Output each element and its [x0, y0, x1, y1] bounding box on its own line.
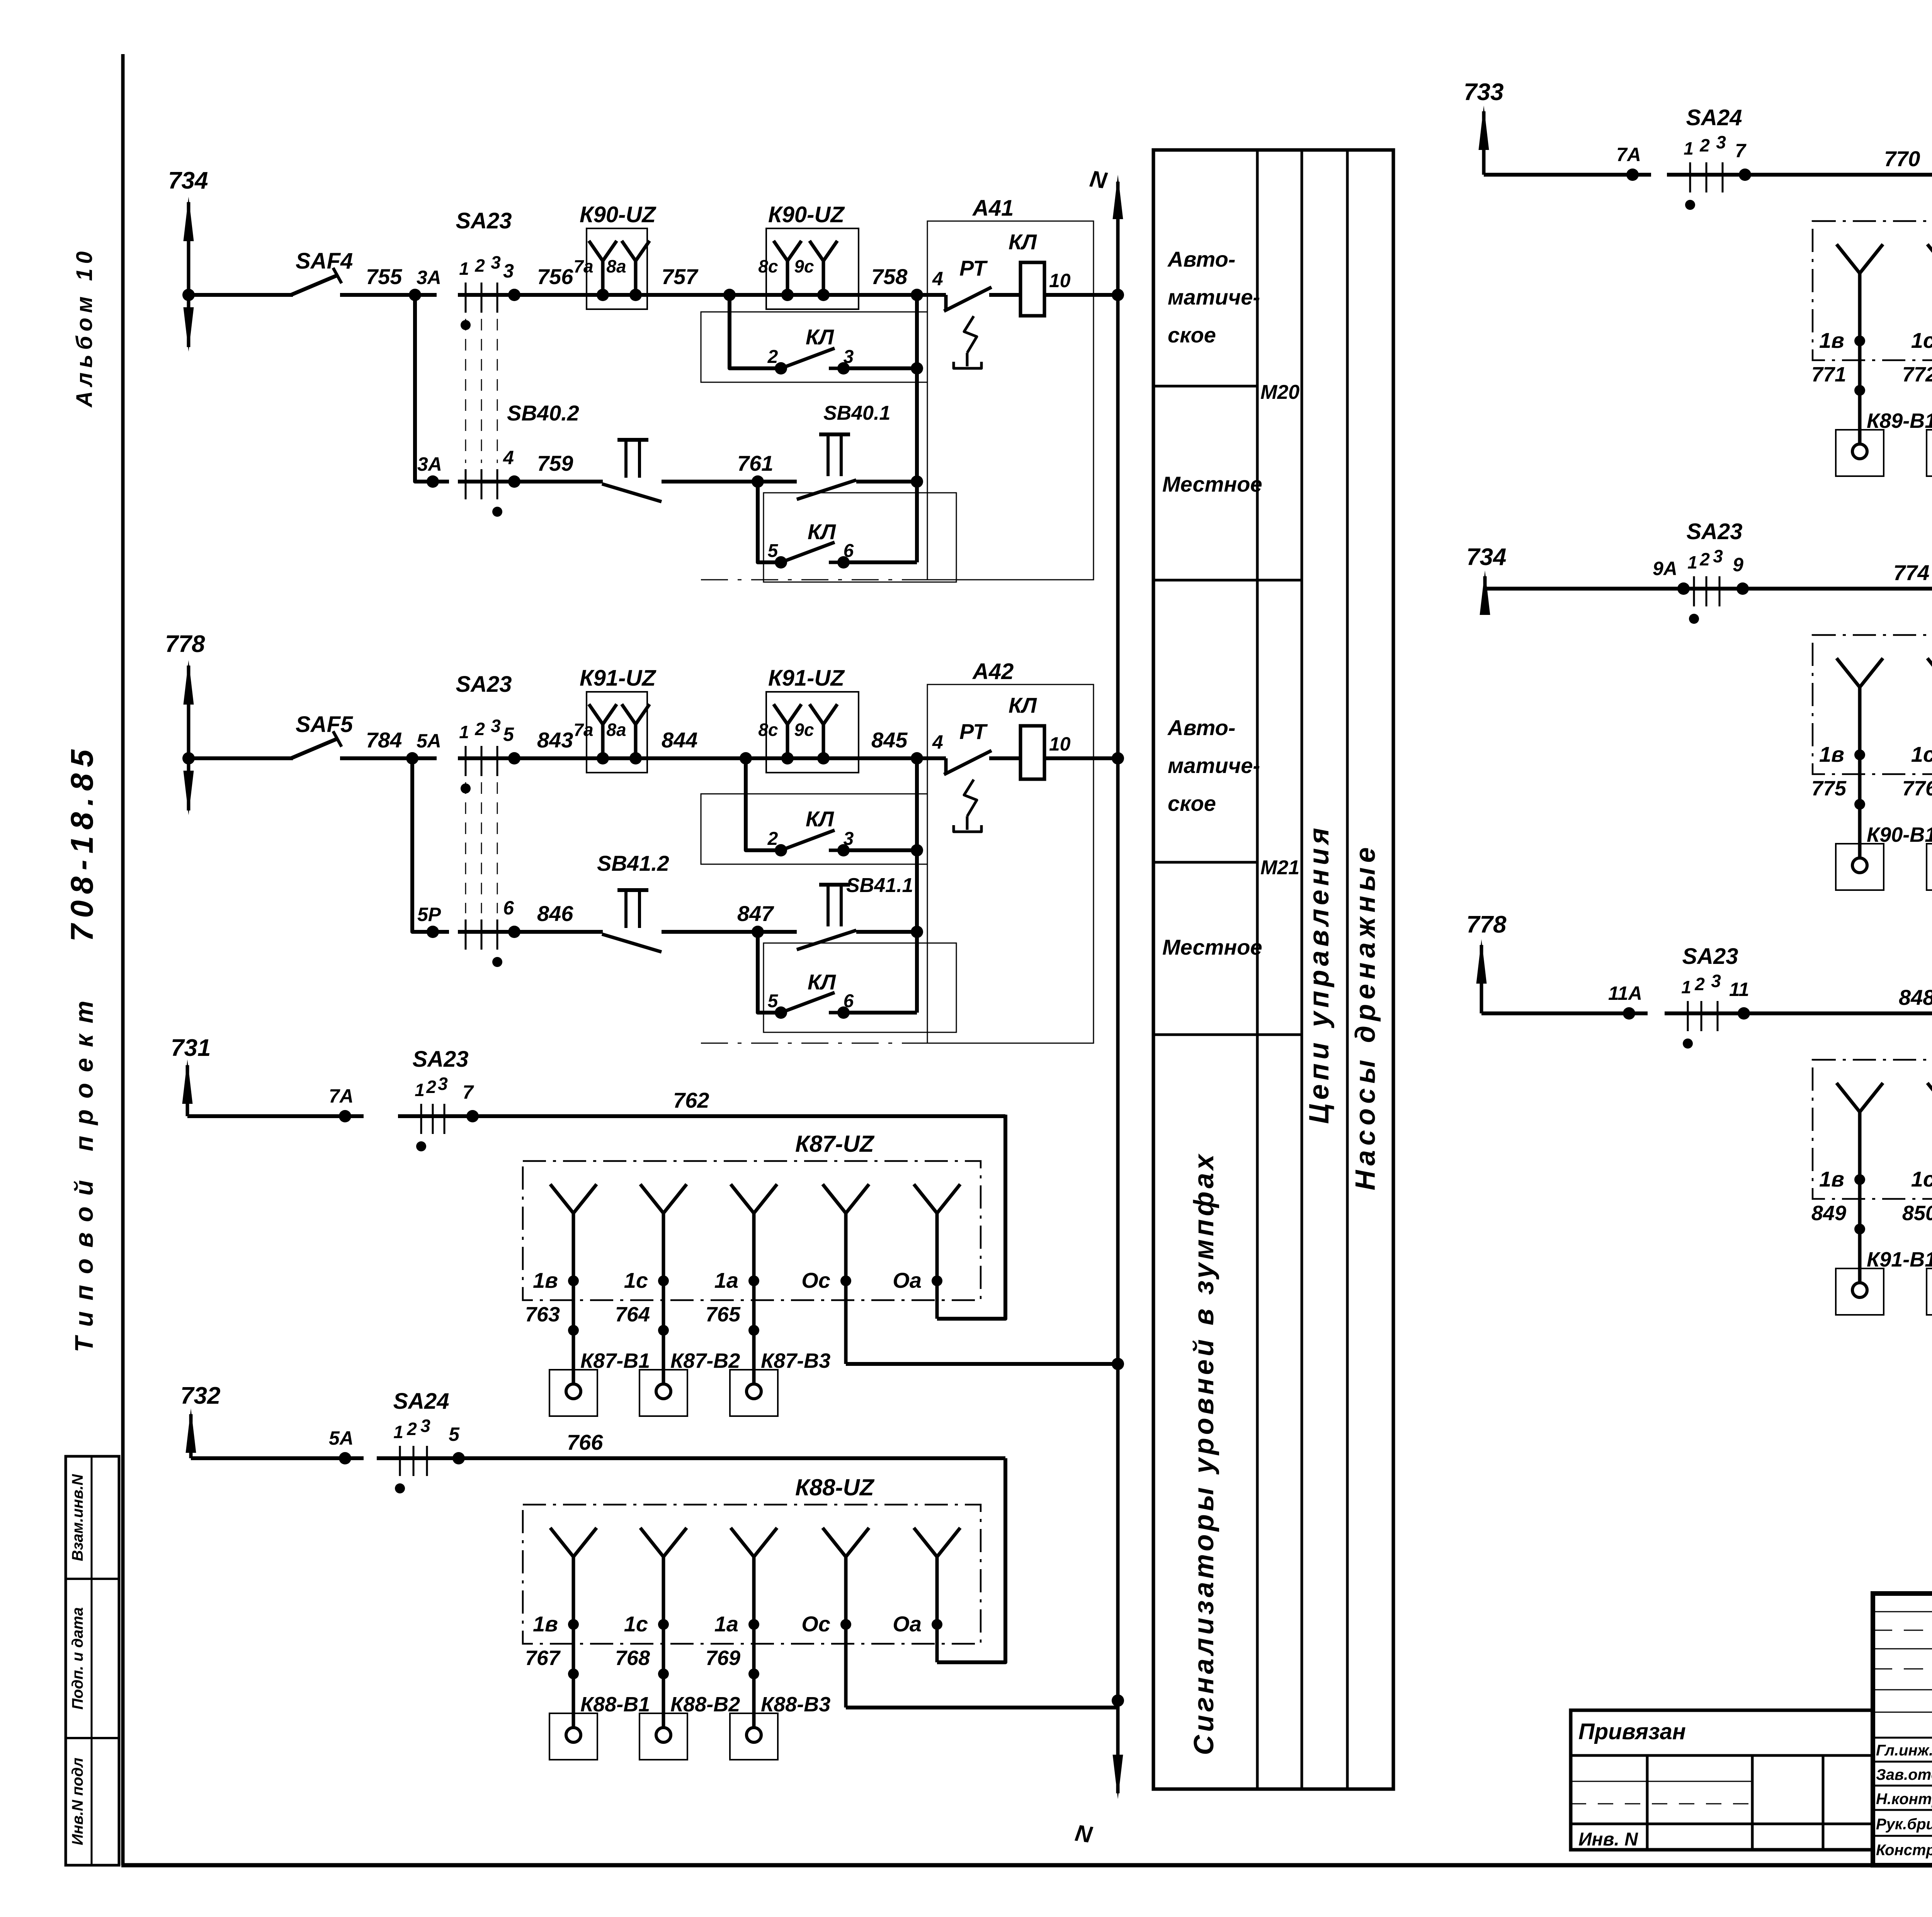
wire : feed of К88 block down to Oa sensor — [937, 1458, 1005, 1662]
svg-text:А41: А41 — [972, 196, 1014, 221]
svg-text:матиче-: матиче- — [1168, 753, 1260, 778]
svg-text:5А: 5А — [329, 1427, 354, 1449]
svg-text:775: 775 — [1811, 777, 1847, 800]
svg-text:848: 848 — [1899, 985, 1932, 1010]
breaker SAF4 — [189, 249, 437, 295]
svg-text:734: 734 — [168, 167, 208, 194]
wire : feeder 733 horizontal run — [1484, 173, 1651, 177]
relay contact КЛ 5-6 — [758, 932, 956, 1032]
svg-text:КЛ: КЛ — [806, 325, 834, 349]
svg-text:Авто-: Авто- — [1167, 715, 1235, 740]
svg-text:9с: 9с — [794, 256, 814, 276]
svg-text:3: 3 — [844, 829, 854, 849]
pushbutton SB40.2 — [458, 401, 726, 502]
node : wire number 765 — [706, 1303, 759, 1336]
switch SA23 (selector contact) — [1681, 944, 1750, 1049]
svg-text:КЛ: КЛ — [1009, 230, 1037, 254]
svg-text:2: 2 — [426, 1077, 436, 1097]
svg-text:758: 758 — [871, 264, 908, 289]
svg-text:8а: 8а — [606, 720, 626, 740]
svg-text:11: 11 — [1729, 979, 1749, 1000]
wire : К87 Oc sensor return to N bus — [846, 1362, 1118, 1366]
wire : branch to local-control row — [415, 295, 449, 482]
svg-text:733: 733 — [1464, 79, 1503, 106]
svg-text:1в: 1в — [1819, 328, 1844, 352]
junction : drop to SB/KL rows — [911, 289, 923, 301]
svg-text:1: 1 — [415, 1080, 425, 1100]
svg-text:755: 755 — [366, 264, 402, 289]
svg-text:ское: ское — [1168, 323, 1216, 347]
device box А41 — [701, 196, 1094, 580]
junction : middle bus / K88 Oc sensor return — [1112, 1694, 1124, 1707]
svg-text:3: 3 — [1711, 971, 1721, 991]
svg-text:1: 1 — [1687, 552, 1697, 572]
wire 848 — [1665, 985, 1932, 1013]
svg-text:SB41.1: SB41.1 — [846, 874, 913, 897]
wire 770 — [1667, 146, 1932, 175]
svg-text:9: 9 — [1733, 554, 1743, 575]
svg-text:1: 1 — [1684, 138, 1694, 158]
svg-text:3: 3 — [420, 1416, 430, 1436]
wire 762 — [398, 1088, 1005, 1116]
svg-text:10: 10 — [1049, 733, 1071, 755]
svg-text:765: 765 — [706, 1303, 741, 1326]
svg-text:SB40.1: SB40.1 — [823, 402, 890, 424]
node : wire number 776 — [1902, 777, 1932, 810]
svg-text:Рук.бриг.: Рук.бриг. — [1876, 1816, 1932, 1833]
wire 843 — [458, 728, 946, 758]
wire : feeder 778 riser — [1476, 939, 1487, 1013]
svg-text:Оа: Оа — [893, 1612, 922, 1636]
svg-text:778: 778 — [1466, 911, 1507, 938]
relay coil КЛ — [1009, 693, 1118, 779]
svg-text:К87-UZ: К87-UZ — [795, 1131, 875, 1157]
junction : 7А tap — [1616, 144, 1641, 181]
junction : 5А branch — [406, 730, 441, 764]
svg-text:6: 6 — [844, 541, 854, 561]
svg-text:К90-UZ: К90-UZ — [768, 202, 845, 227]
pushbutton SB41.1 — [797, 874, 917, 950]
pushbutton SB41.2 — [458, 851, 726, 952]
node : 3А label (lower row) — [417, 453, 442, 488]
wire : feeder 732 riser — [186, 1408, 196, 1458]
svg-text:774: 774 — [1893, 560, 1929, 585]
svg-text:764: 764 — [615, 1303, 650, 1326]
svg-text:1: 1 — [393, 1422, 403, 1442]
wire : right tie of bypass contacts — [915, 295, 919, 562]
wire : feed of К87 block down to Oa sensor — [937, 1115, 1005, 1319]
node : mode label "Автоматическое" (circuit 1) — [1167, 247, 1260, 347]
svg-text:7А: 7А — [1616, 144, 1641, 165]
svg-text:Н.контр.: Н.контр. — [1876, 1791, 1932, 1808]
svg-text:А42: А42 — [972, 659, 1014, 684]
sensor electrode К88-В1 — [549, 1693, 650, 1760]
wire : feeder 732 horizontal run — [191, 1456, 364, 1460]
svg-text:732: 732 — [180, 1382, 220, 1409]
svg-text:9с: 9с — [794, 720, 814, 740]
relay contact box К90-UZ (c-contacts) — [758, 202, 859, 309]
svg-text:1с: 1с — [1911, 1167, 1932, 1191]
svg-text:756: 756 — [537, 264, 573, 289]
junction : lower row / KL 5-6 branch — [726, 475, 797, 488]
relay unit box К88-UZ — [523, 1474, 981, 1644]
svg-text:7: 7 — [1735, 140, 1747, 162]
wire : feeder 778 horizontal run — [1481, 1011, 1648, 1015]
sensor electrode К87-В3 — [730, 1349, 830, 1416]
switch SA23 (lower row contact) — [466, 447, 520, 517]
svg-text:843: 843 — [537, 728, 573, 752]
wire 766 — [377, 1430, 1005, 1458]
svg-text:Инв. N: Инв. N — [1578, 1829, 1638, 1850]
sensor electrode contact К87 1в — [533, 1184, 597, 1385]
wire : middle N bus — [1113, 175, 1123, 1799]
svg-text:SAF4: SAF4 — [296, 249, 353, 274]
thermal relay contact РТ — [932, 719, 1020, 832]
svg-text:SAF5: SAF5 — [296, 712, 353, 737]
svg-text:731: 731 — [171, 1035, 211, 1061]
breaker SAF5 — [189, 712, 437, 758]
sensor electrode contact К88 1с — [624, 1528, 687, 1728]
sensor electrode contact К89 1в — [1819, 244, 1883, 445]
sensor electrode К91-В2 — [1927, 1248, 1932, 1315]
svg-text:2: 2 — [1699, 135, 1710, 155]
svg-text:10: 10 — [1049, 270, 1071, 291]
node : wire number 775 — [1811, 777, 1865, 810]
junction : middle bus / circuit A42 output — [1112, 752, 1124, 764]
svg-text:2: 2 — [474, 255, 485, 276]
svg-text:850: 850 — [1902, 1202, 1932, 1225]
node : wire number 772 — [1902, 363, 1932, 396]
svg-text:Альбом 10: Альбом 10 — [72, 247, 97, 408]
svg-text:Взам.инв.N: Взам.инв.N — [69, 1474, 86, 1561]
sensor electrode contact К87 Оа — [893, 1184, 960, 1319]
svg-text:8а: 8а — [606, 256, 626, 276]
sensor electrode contact К87 1а — [714, 1184, 777, 1385]
sensor electrode К87-В1 — [549, 1349, 650, 1416]
wire : feeder 734 horizontal run — [1485, 587, 1702, 591]
svg-text:1с: 1с — [1911, 328, 1932, 352]
node : middle legend table — [1153, 150, 1393, 1789]
relay contact box К91-UZ (a-contacts) — [573, 666, 656, 773]
svg-text:767: 767 — [525, 1646, 561, 1670]
svg-text:6: 6 — [503, 897, 514, 919]
switch SA23 (upper row contact) — [456, 672, 520, 913]
svg-text:5: 5 — [768, 541, 779, 561]
svg-text:1с: 1с — [1911, 742, 1932, 766]
svg-text:7а: 7а — [573, 256, 593, 276]
junction : lower row / KL 5-6 branch — [726, 926, 797, 938]
relay coil КЛ — [1009, 230, 1118, 316]
junction : 5А tap — [329, 1427, 354, 1464]
wire : sheet frame bottom border — [121, 1863, 1932, 1868]
svg-text:1в: 1в — [1819, 742, 1844, 766]
sensor electrode К88-В2 — [639, 1693, 740, 1760]
svg-text:Гл.инж.пр.: Гл.инж.пр. — [1876, 1742, 1932, 1759]
junction : middle bus / K87 Oc sensor return — [1112, 1358, 1124, 1370]
junction : drop to KL 2-3 row — [740, 752, 752, 764]
svg-text:7а: 7а — [573, 720, 593, 740]
node : wire number 769 — [706, 1646, 759, 1679]
svg-text:2: 2 — [767, 347, 778, 367]
svg-text:КЛ: КЛ — [1009, 693, 1037, 717]
sensor electrode К90-В2 — [1927, 823, 1932, 890]
relay contact box К90-UZ (a-contacts) — [573, 202, 656, 309]
switch SA24 (selector contact) — [1684, 105, 1751, 210]
svg-text:2: 2 — [474, 719, 485, 739]
svg-text:3: 3 — [491, 716, 501, 736]
svg-text:8с: 8с — [758, 720, 778, 740]
svg-text:2: 2 — [1694, 974, 1705, 994]
svg-text:SA23: SA23 — [1686, 519, 1742, 544]
svg-text:759: 759 — [537, 451, 573, 475]
svg-text:Привязан: Привязан — [1578, 1719, 1686, 1744]
junction : 11А tap — [1608, 982, 1642, 1020]
sensor electrode contact К88 1а — [714, 1528, 777, 1728]
wire : feeder 778 riser (double arrow) — [182, 660, 195, 815]
svg-text:КЛ: КЛ — [806, 807, 834, 831]
sensor electrode contact К91 1в — [1819, 1083, 1883, 1284]
node : wire number 767 — [525, 1646, 579, 1679]
svg-text:757: 757 — [662, 264, 699, 289]
svg-text:770: 770 — [1884, 146, 1920, 171]
svg-text:Инв.N подл: Инв.N подл — [69, 1758, 86, 1845]
svg-text:SA24: SA24 — [393, 1389, 449, 1414]
switch SA23 (upper row contact) — [456, 208, 520, 463]
svg-text:8с: 8с — [758, 256, 778, 276]
svg-text:Констр.!кол: Констр.!кол — [1876, 1842, 1932, 1859]
relay contact КЛ 5-6 — [758, 482, 956, 582]
relay unit box К89-UZ — [1813, 191, 1932, 360]
switch SA23 (selector contact) — [412, 1047, 479, 1151]
relay unit box К87-UZ — [523, 1131, 981, 1300]
svg-text:11А: 11А — [1608, 982, 1642, 1004]
svg-text:SB40.2: SB40.2 — [507, 401, 579, 425]
node : wire number 850 — [1902, 1202, 1932, 1234]
wire : feeder 731 horizontal run — [187, 1114, 364, 1118]
svg-text:761: 761 — [737, 451, 773, 475]
sensor electrode contact К90 1в — [1819, 658, 1883, 859]
sensor electrode contact К87 1с — [624, 1184, 687, 1385]
relay contact box К91-UZ (c-contacts) — [758, 666, 859, 773]
svg-text:Сигнализаторы уровней в зумп: Сигнализаторы уровней в зумпфах — [1189, 1151, 1219, 1755]
svg-text:1а: 1а — [714, 1612, 738, 1636]
node : wire number 763 — [525, 1303, 579, 1336]
svg-text:5А: 5А — [417, 730, 441, 752]
svg-text:3А: 3А — [417, 453, 442, 475]
wire : feeder 731 riser — [182, 1059, 193, 1116]
svg-text:769: 769 — [706, 1646, 740, 1670]
svg-text:784: 784 — [366, 728, 402, 752]
svg-text:1а: 1а — [714, 1268, 738, 1292]
switch SA24 (selector contact) — [393, 1389, 465, 1493]
svg-text:1с: 1с — [624, 1268, 648, 1292]
svg-text:Типовой проект: Типовой проект — [70, 990, 98, 1352]
wire : К88 Oc sensor return to N bus — [846, 1706, 1118, 1709]
junction : 7А tap — [329, 1085, 354, 1122]
svg-text:768: 768 — [615, 1646, 650, 1670]
svg-text:Ос: Ос — [801, 1268, 830, 1292]
thermal relay contact РТ — [932, 256, 1020, 368]
svg-text:КЛ: КЛ — [808, 519, 836, 544]
svg-text:Насосы дренажные: Насосы дренажные — [1350, 843, 1381, 1190]
svg-text:763: 763 — [525, 1303, 560, 1326]
svg-text:Оа: Оа — [893, 1268, 922, 1292]
junction : drop to KL 2-3 row — [723, 289, 736, 301]
node : wire number 764 — [615, 1303, 669, 1336]
svg-text:матиче-: матиче- — [1168, 285, 1260, 309]
switch SA23 (selector contact) — [1686, 519, 1749, 624]
sensor electrode contact К88 Оа — [893, 1528, 960, 1662]
svg-text:3: 3 — [1713, 546, 1723, 566]
relay unit box К90-UZ — [1813, 605, 1932, 774]
sensor electrode К91-В1 — [1836, 1248, 1932, 1315]
svg-text:3: 3 — [503, 260, 514, 282]
svg-text:ское: ское — [1168, 791, 1216, 815]
svg-text:9А: 9А — [1653, 558, 1677, 579]
node : mode label "Автоматическое" (circuit 2) — [1167, 715, 1260, 815]
svg-text:762: 762 — [673, 1088, 709, 1112]
svg-text:К90-UZ: К90-UZ — [580, 202, 656, 227]
svg-text:Зав.отд.: Зав.отд. — [1876, 1766, 1932, 1783]
node : left stamp table — [66, 1456, 119, 1865]
svg-text:778: 778 — [165, 631, 205, 657]
svg-text:5: 5 — [768, 991, 779, 1011]
svg-text:7А: 7А — [329, 1085, 354, 1107]
svg-text:М21: М21 — [1260, 856, 1299, 879]
svg-text:Местное: Местное — [1162, 472, 1262, 496]
svg-text:SB41.2: SB41.2 — [597, 851, 669, 875]
sensor electrode contact К88 1в — [533, 1528, 597, 1728]
svg-text:766: 766 — [567, 1430, 603, 1454]
wire : sheet frame left border — [121, 54, 125, 1865]
svg-text:3: 3 — [438, 1074, 448, 1094]
node : wire number 849 — [1811, 1202, 1865, 1234]
switch SA23 (lower row contact) — [466, 897, 520, 967]
svg-text:SA24: SA24 — [1686, 105, 1742, 130]
sensor electrode contact К90 1с — [1911, 658, 1932, 859]
svg-text:К91-UZ: К91-UZ — [768, 666, 845, 691]
sensor electrode К89-В2 — [1927, 409, 1932, 476]
sensor electrode contact К91 1с — [1911, 1083, 1932, 1284]
sensor electrode К90-В1 — [1836, 823, 1932, 890]
svg-text:1: 1 — [459, 722, 469, 742]
node : 5Р label (lower row) — [417, 904, 441, 938]
junction : middle bus / circuit A41 output — [1112, 289, 1124, 301]
svg-text:3А: 3А — [417, 267, 441, 288]
svg-text:2: 2 — [767, 829, 778, 849]
svg-text:1: 1 — [1681, 977, 1691, 997]
svg-text:SA23: SA23 — [456, 672, 512, 697]
svg-text:2: 2 — [1699, 549, 1710, 569]
relay unit box К91-UZ — [1813, 1030, 1932, 1199]
sensor electrode К88-В3 — [730, 1693, 830, 1760]
svg-text:1с: 1с — [624, 1612, 648, 1636]
junction : 9А tap — [1653, 558, 1690, 595]
svg-text:772: 772 — [1902, 363, 1932, 386]
node : wire number 768 — [615, 1646, 669, 1679]
svg-text:SA23: SA23 — [1682, 944, 1738, 969]
device box А42 — [701, 659, 1094, 1043]
svg-text:РТ: РТ — [959, 256, 988, 280]
sensor electrode contact К87 Ос — [801, 1184, 869, 1364]
svg-text:734: 734 — [1466, 544, 1506, 570]
sensor electrode К89-В1 — [1836, 409, 1932, 476]
svg-text:К88-UZ: К88-UZ — [795, 1474, 875, 1500]
relay contact КЛ 2-3 — [701, 295, 927, 382]
svg-text:Подп. и дата: Подп. и дата — [69, 1607, 86, 1710]
node : signature rows — [1876, 1739, 1932, 1859]
svg-text:1: 1 — [459, 259, 469, 279]
svg-text:3: 3 — [1716, 132, 1726, 152]
svg-text:844: 844 — [662, 728, 697, 752]
svg-text:КЛ: КЛ — [808, 970, 836, 994]
svg-text:РТ: РТ — [959, 719, 988, 744]
svg-text:Местное: Местное — [1162, 935, 1262, 959]
svg-text:771: 771 — [1811, 363, 1846, 386]
wire 774 — [1671, 560, 1932, 589]
junction : drop to SB/KL rows — [911, 752, 923, 764]
svg-text:5: 5 — [503, 724, 514, 745]
svg-text:Цепи управления: Цепи управления — [1304, 824, 1335, 1124]
svg-text:SA23: SA23 — [456, 208, 512, 233]
wire : right tie of bypass contacts — [915, 758, 919, 1013]
svg-text:5Р: 5Р — [417, 904, 441, 925]
svg-text:5: 5 — [449, 1423, 460, 1445]
wire : feeder 733 riser — [1479, 106, 1489, 175]
svg-text:847: 847 — [737, 901, 774, 926]
sensor electrode contact К88 Ос — [801, 1528, 869, 1708]
svg-text:4: 4 — [932, 731, 943, 753]
svg-text:846: 846 — [537, 901, 573, 926]
junction : 3А branch — [409, 267, 441, 301]
node : title block frame — [1873, 1594, 1932, 1865]
wire 756 — [458, 264, 946, 295]
node : privyazan table — [1571, 1710, 1873, 1850]
svg-text:849: 849 — [1811, 1202, 1846, 1225]
svg-text:4: 4 — [932, 268, 943, 289]
svg-text:708-18.85: 708-18.85 — [65, 743, 100, 941]
svg-text:К91-UZ: К91-UZ — [580, 666, 656, 691]
svg-text:4: 4 — [503, 447, 514, 468]
svg-text:7: 7 — [463, 1081, 474, 1103]
svg-text:845: 845 — [871, 728, 908, 752]
svg-text:6: 6 — [844, 991, 854, 1011]
svg-text:776: 776 — [1902, 777, 1932, 800]
svg-text:Ос: Ос — [801, 1612, 830, 1636]
wire : feeder 734 riser — [1480, 570, 1490, 615]
wire : branch to local-control row — [412, 758, 449, 932]
svg-text:1в: 1в — [533, 1612, 558, 1636]
svg-text:1в: 1в — [1819, 1167, 1844, 1191]
svg-text:SA23: SA23 — [412, 1047, 468, 1072]
svg-text:Авто-: Авто- — [1167, 247, 1235, 271]
wire : feeder 734 riser (double arrow) — [182, 197, 195, 352]
sensor electrode К87-В2 — [639, 1349, 740, 1416]
sensor electrode contact К89 1с — [1911, 244, 1932, 445]
svg-text:М20: М20 — [1260, 381, 1299, 403]
node : wire number 771 — [1811, 363, 1865, 396]
pushbutton SB40.1 — [797, 402, 917, 499]
svg-text:2: 2 — [406, 1419, 417, 1439]
relay contact КЛ 2-3 — [701, 758, 927, 864]
svg-text:3: 3 — [844, 347, 854, 367]
svg-text:3: 3 — [491, 252, 501, 272]
svg-text:1в: 1в — [533, 1268, 558, 1292]
